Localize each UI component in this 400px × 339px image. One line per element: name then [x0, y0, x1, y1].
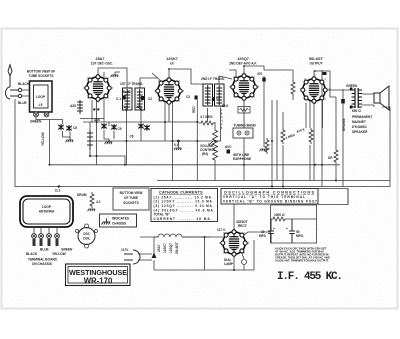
wire T4 cathode verticals: [306, 98, 323, 181]
wire vert under T2: [165, 102, 173, 181]
svg-text:VERTICAL "B" TO GROUND BINDING: VERTICAL "B" TO GROUND BINDING POST: [223, 199, 317, 203]
wire top rail T3: [229, 66, 264, 79]
svg-text:GREEN: GREEN: [346, 84, 358, 88]
svg-text:C5: C5: [73, 126, 77, 130]
svg-text:GREEN: GREEN: [30, 120, 42, 124]
wire coupling vert: [263, 76, 265, 147]
volume control pot: [213, 128, 218, 161]
text bottom view of tube sockets: [27, 70, 55, 79]
svg-text:I.F.: I.F.: [170, 61, 174, 65]
svg-text:4.7 MEG: 4.7 MEG: [200, 115, 213, 119]
svg-text:GREEN: GREEN: [61, 248, 73, 252]
svg-text:CURRENT ......... 48 MA.: CURRENT ......... 48 MA.: [154, 217, 212, 221]
svg-text:2ND DET-AVC-A.F.: 2ND DET-AVC-A.F.: [229, 61, 257, 65]
2nd IF transformer: [201, 77, 225, 106]
volume control label: [200, 144, 216, 156]
wire vert x322: [321, 70, 323, 187]
svg-text:470: 470: [257, 72, 263, 76]
svg-text:YELLOW: YELLOW: [52, 252, 66, 256]
svg-text:OSC: OSC: [83, 232, 91, 236]
svg-text:LOOP: LOOP: [36, 95, 46, 99]
wire y141 run: [90, 140, 221, 142]
svg-text:C2: C2: [148, 97, 152, 101]
wire vert under T1 pin4: [96, 100, 98, 165]
label green: [30, 120, 42, 124]
wire speaker bottom right vert: [347, 189, 349, 205]
svg-text:BLUE: BLUE: [40, 248, 49, 252]
svg-text:DP.: DP.: [328, 156, 333, 160]
fine print note: [275, 247, 330, 263]
loop antenna box: [20, 196, 73, 227]
svg-text:(R4): (R4): [202, 152, 208, 156]
trimmer C6 pair: [101, 123, 122, 131]
indicates chassis box: [100, 214, 137, 227]
svg-text:TUBE SOCKETS: TUBE SOCKETS: [29, 74, 54, 78]
resistor 1000 ohm: [271, 213, 317, 221]
resistor 4.2 ohm: [90, 192, 101, 208]
svg-text:(2) 12SK7 .......... 10.9 MA.: (2) 12SK7 .......... 10.9 MA.: [154, 200, 214, 204]
wire vert under T1 pin5: [103, 99, 105, 122]
wire plate to speaker: [325, 89, 352, 98]
resistor R mid3: [296, 127, 313, 144]
svg-text:SPEAKER: SPEAKER: [352, 130, 368, 134]
ground under drum resistor: [88, 209, 96, 211]
wire vert x272: [272, 100, 277, 187]
loop socket box: [30, 81, 53, 112]
svg-text:MFD.: MFD.: [296, 234, 304, 238]
1st IF transformer: [120, 82, 145, 110]
svg-text:1ST DET.-OSC.: 1ST DET.-OSC.: [91, 61, 114, 65]
svg-text:A36: A36: [94, 118, 100, 122]
svg-text:ALIGN ANT. TRIMMER FOR MAX OUT: ALIGN ANT. TRIMMER FOR MAX OUTPUT.: [275, 259, 329, 263]
svg-text:+: +: [273, 227, 275, 231]
svg-text:RECT.: RECT.: [238, 224, 247, 228]
filter box: [271, 205, 317, 243]
svg-text:AVC: AVC: [225, 145, 232, 149]
wire y118.5 coil link: [80, 118, 104, 120]
svg-text:DRUM: DRUM: [77, 193, 87, 197]
oscillator coil winding: [77, 100, 83, 114]
svg-text:LOOP: LOOP: [42, 205, 52, 209]
wire vert x343 brown: [342, 89, 344, 187]
wire vert x283: [282, 112, 284, 187]
wire heater to rect vert: [154, 237, 254, 270]
label V5: [236, 220, 248, 228]
switch line earphone label: [233, 153, 251, 161]
output transformer: [350, 88, 362, 109]
wire top rail T2: [140, 69, 232, 88]
wire trimmer C5 bottom: [63, 131, 71, 140]
wire top rail T4: [314, 71, 330, 89]
terminal labels: [26, 248, 73, 267]
svg-text:MAGNET: MAGNET: [352, 120, 366, 124]
svg-text:25A7: 25A7: [157, 244, 161, 252]
resistor right: [334, 148, 338, 164]
tube V4 50L6GT output: [301, 77, 327, 103]
AC plug: [121, 248, 152, 264]
ground near T1 top: [111, 72, 120, 77]
pot wiper arrow: [208, 141, 213, 144]
wire RED vertical: [196, 100, 198, 181]
electrolytic cap 30mfd: [259, 219, 275, 243]
label blue: [18, 101, 27, 105]
svg-text:1000 Ω: 1000 Ω: [274, 213, 285, 217]
osc coil: [76, 224, 98, 248]
svg-text:DYNAMIC: DYNAMIC: [352, 125, 368, 129]
svg-text:+: +: [286, 227, 288, 231]
wire yellow vertical: [50, 120, 341, 165]
svg-text:650 Ω: 650 Ω: [352, 109, 361, 113]
svg-text:INDICATES: INDICATES: [112, 217, 129, 221]
speaker symbol: [374, 86, 389, 110]
tube V5 35Z5GT rectifier: [221, 230, 247, 256]
svg-text:117V.: 117V.: [121, 248, 129, 252]
wire osc coil branch: [89, 122, 91, 156]
resistor R mid2: [281, 128, 296, 144]
antenna plug: [6, 87, 30, 99]
svg-text:ANTENNA: ANTENNA: [39, 210, 55, 214]
svg-text:L5: L5: [39, 103, 43, 107]
wire vert under T1 pin3: [91, 100, 93, 122]
svg-text:PERMANENT: PERMANENT: [352, 115, 372, 119]
tube V1 25A7 1st det-osc: [85, 75, 111, 101]
resistor R mid1: [265, 138, 269, 154]
svg-text:2ND I.F TRANS.: 2ND I.F TRANS.: [201, 77, 225, 81]
heater string humps: [140, 234, 210, 254]
svg-text:117 V.: 117 V.: [217, 228, 226, 232]
svg-text:12SK7: 12SK7: [163, 243, 167, 253]
svg-text:12SQ7: 12SQ7: [169, 243, 173, 253]
svg-text:(3) 12SQ7 .......... 0.14 MA.: (3) 12SQ7 .......... 0.14 MA.: [154, 204, 214, 208]
svg-text:ON CHASSIS: ON CHASSIS: [32, 262, 52, 266]
svg-text:C6: C6: [130, 135, 134, 139]
wire 1st IF can bottoms: [127, 110, 142, 165]
label V2: [166, 57, 178, 65]
svg-text:TERMINAL BOARD: TERMINAL BOARD: [28, 258, 58, 262]
trimmer pair on 2nd winding: [130, 123, 150, 139]
svg-text:BOTTOM VIEW OF: BOTTOM VIEW OF: [27, 70, 55, 74]
oscillograph connections box: [221, 189, 318, 205]
svg-text:BROWN: BROWN: [342, 118, 346, 131]
svg-text:TOTAL "B": TOTAL "B": [154, 213, 171, 217]
extra junction dots: [49, 65, 338, 187]
loop antenna leads: [34, 227, 57, 233]
tube V3 12SQ7: [231, 74, 257, 100]
dashed AVC line: [219, 102, 222, 130]
tube V2 12SK7 IF: [156, 78, 182, 104]
wire rect bottom to rail: [234, 251, 244, 270]
trimmer C5 pair: [58, 124, 77, 131]
label black: [18, 82, 30, 86]
antenna mast: [8, 64, 12, 87]
label yellow (vertical): [41, 132, 45, 146]
phono jack box: [233, 124, 257, 139]
wire dial lamp drop: [243, 265, 245, 270]
svg-text:OF TUBE: OF TUBE: [124, 196, 138, 200]
wire volume pot run: [214, 122, 216, 181]
svg-text:(1) 25A7 ............ 10.2 MA.: (1) 25A7 ............ 10.2 MA.: [154, 195, 213, 199]
svg-text:MFD: MFD: [259, 234, 267, 238]
svg-text:COIL: COIL: [83, 237, 91, 241]
Westinghouse model box: [66, 264, 131, 286]
ground under C6: [105, 139, 113, 144]
wire trimmer C6 feeds: [104, 122, 114, 141]
loop socket terminals: [34, 112, 49, 117]
svg-text:SOCKETS: SOCKETS: [123, 201, 138, 205]
switch triangle: [152, 253, 157, 259]
svg-text:50L6GT: 50L6GT: [175, 242, 179, 254]
loop terminals: [32, 234, 60, 246]
bottom view of tube sockets note box: [113, 188, 149, 210]
svg-text:CATHODE CURRENTS: CATHODE CURRENTS: [159, 190, 203, 194]
wire bottom double bus lower: [112, 107, 390, 187]
ground under 0.1 cap: [174, 141, 182, 150]
wire vert x310: [309, 100, 311, 181]
wire under T3: [243, 99, 245, 181]
svg-text:BLUE: BLUE: [18, 101, 27, 105]
wire speaker top/bottom: [362, 94, 390, 107]
resistor 10meg right of T3: [291, 80, 295, 96]
svg-text:WR-170: WR-170: [84, 277, 113, 286]
label 117V: [217, 228, 226, 232]
wire y122 run: [83, 121, 199, 123]
label 650 ohm: [352, 109, 361, 113]
wire mid horizontal y156: [91, 156, 126, 165]
wire bottom double bus upper: [157, 180, 390, 182]
dial lamp: [224, 258, 247, 266]
svg-text:VERTICAL "A" TO THIS TERMINAL: VERTICAL "A" TO THIS TERMINAL: [223, 195, 305, 199]
svg-text:Ω.1: Ω.1: [55, 189, 60, 193]
svg-text:LAMP: LAMP: [224, 262, 234, 266]
wire heater string: [154, 236, 223, 238]
label V3: [229, 57, 257, 65]
svg-text:0.1: 0.1: [174, 143, 179, 147]
tube pin numbers: [83, 72, 330, 259]
wire green run: [36, 117, 63, 124]
wire left vertical bus: [15, 99, 112, 187]
IF 455 KC text: [277, 271, 342, 283]
osc winding L6: [87, 130, 93, 150]
electrolytic cap 50mfd: [286, 219, 304, 243]
label V1: [91, 57, 114, 65]
ground under coupling cap: [260, 149, 268, 151]
drum label: [77, 193, 87, 197]
blob caps: [123, 72, 345, 154]
label V4: [309, 57, 324, 65]
wire rect top: [233, 204, 235, 232]
svg-text:A35: A35: [70, 104, 76, 108]
svg-text:C.1: C.1: [116, 97, 121, 101]
wire plug runs: [153, 237, 155, 270]
svg-text:BLACK: BLACK: [18, 82, 30, 86]
wire top rail T1: [98, 68, 127, 88]
svg-text:CHASSIS: CHASSIS: [112, 222, 126, 226]
svg-text:C9: C9: [118, 127, 122, 131]
diode load box under T3: [238, 107, 250, 114]
svg-text:EARPHONE: EARPHONE: [233, 157, 251, 161]
ground under C5: [66, 137, 74, 142]
wire rect plate to filter: [243, 232, 271, 236]
wire oscillo to right: [318, 189, 348, 205]
svg-text:4.2: 4.2: [96, 200, 101, 204]
svg-text:BOTTOM VIEW: BOTTOM VIEW: [120, 191, 143, 195]
cathode currents box: [151, 189, 218, 222]
wire 2nd IF bottoms: [208, 108, 221, 141]
svg-text:I.F. 455 KC.: I.F. 455 KC.: [277, 271, 342, 283]
svg-text:C3: C3: [186, 95, 190, 99]
svg-text:1ST I.F TRANS.: 1ST I.F TRANS.: [120, 82, 143, 86]
svg-text:TUNING BAND: TUNING BAND: [234, 124, 257, 128]
svg-text:RED: RED: [192, 106, 196, 113]
speaker text: [352, 115, 372, 134]
wire vert x336: [335, 97, 337, 181]
svg-text:YELLOW: YELLOW: [41, 132, 45, 146]
svg-text:BLACK: BLACK: [26, 252, 38, 256]
svg-text:OUTPUT: OUTPUT: [309, 61, 322, 65]
